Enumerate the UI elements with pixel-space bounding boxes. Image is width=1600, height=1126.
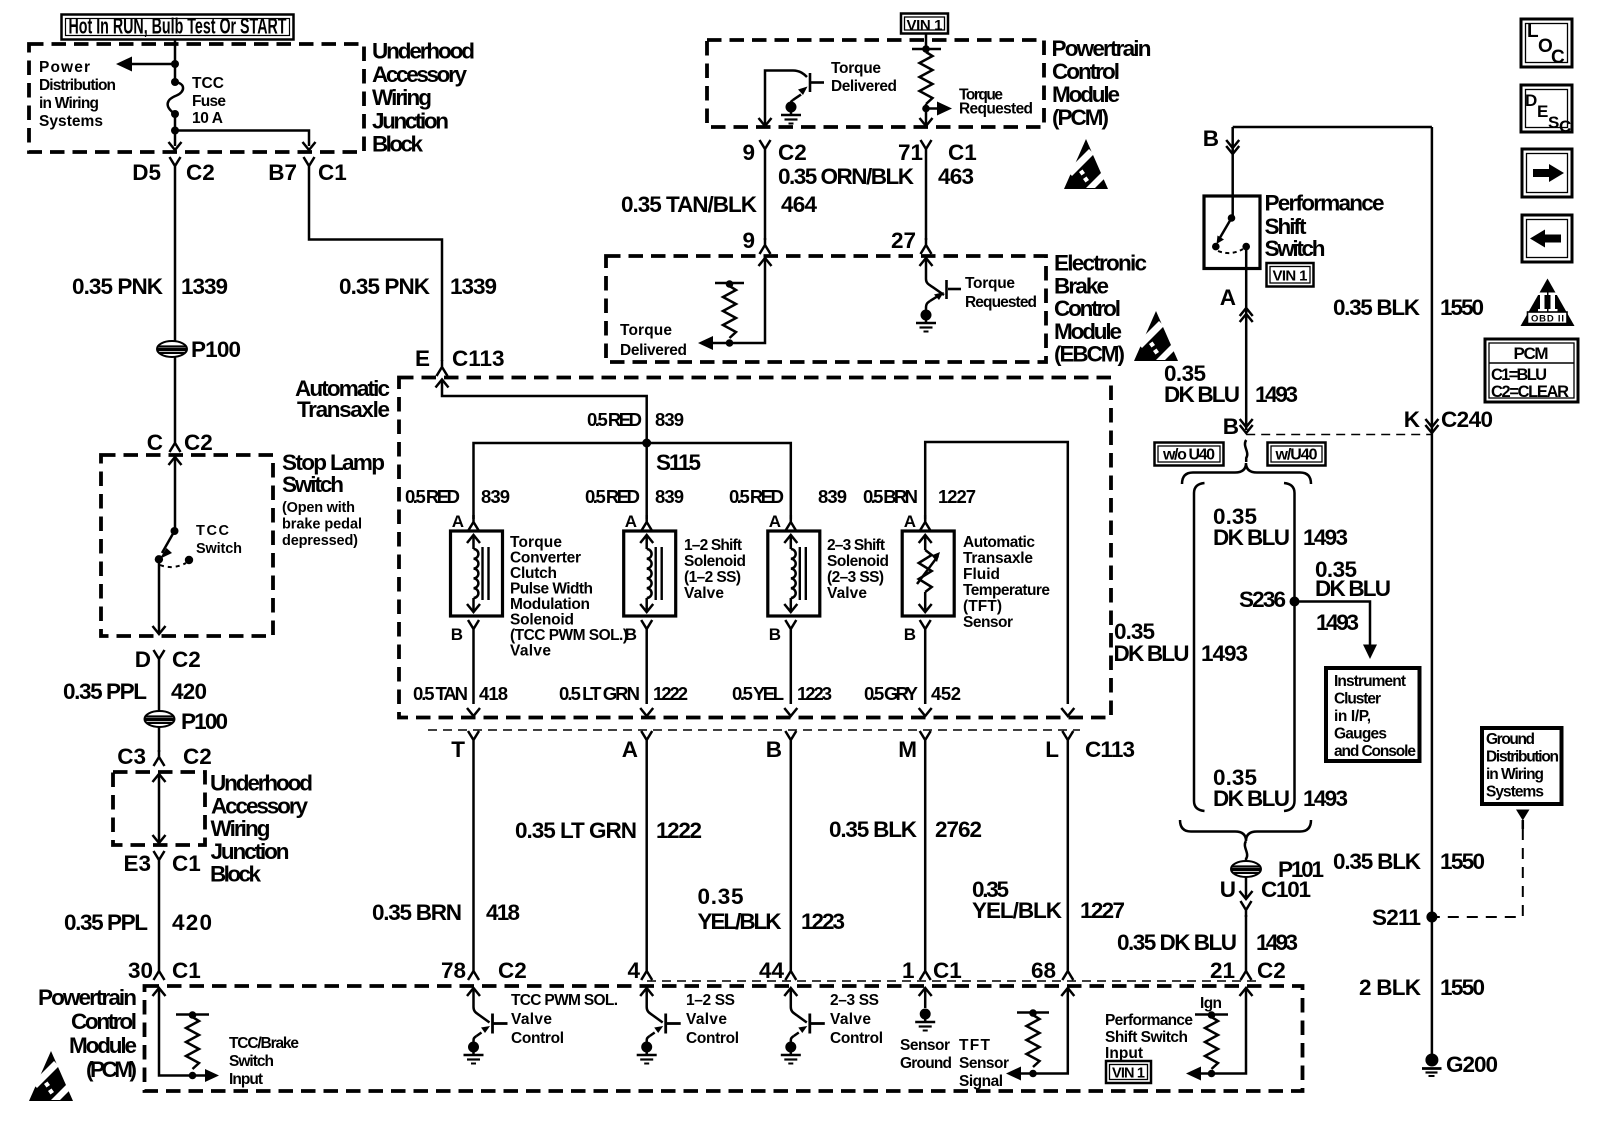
svg-text:Transaxle: Transaxle <box>297 397 390 422</box>
pin B forks below solenoids <box>451 620 479 644</box>
PCM (bottom) dashed box <box>145 986 1303 1091</box>
svg-text:839: 839 <box>818 486 847 507</box>
svg-text:Input: Input <box>229 1071 263 1088</box>
wire from Hot feed down <box>174 40 177 83</box>
label box VIN 1 (switch) <box>1267 263 1314 287</box>
svg-text:(PCM): (PCM) <box>86 1057 137 1082</box>
svg-text:TCC: TCC <box>196 523 230 539</box>
svg-text:1493: 1493 <box>1256 930 1298 955</box>
ESD symbol (EBCM) <box>1134 311 1178 361</box>
svg-text:C101: C101 <box>1261 877 1311 902</box>
branch bracket w/U40 wire <box>1284 483 1295 811</box>
pin 44 <box>759 958 796 983</box>
svg-text:Modulation: Modulation <box>510 596 590 613</box>
wire down to stop lamp switch <box>174 357 177 436</box>
svg-text:(TCC PWM SOL.): (TCC PWM SOL.) <box>510 627 628 644</box>
svg-text:C2: C2 <box>778 140 807 165</box>
svg-text:in Wiring: in Wiring <box>39 95 99 112</box>
svg-text:0.35 DK BLU: 0.35 DK BLU <box>1117 930 1237 955</box>
TFT feed wire 0.5 BRN 1227 <box>925 442 1068 704</box>
svg-text:839: 839 <box>481 486 510 507</box>
svg-text:S: S <box>1548 113 1559 132</box>
label: Stop Lamp Switch <box>282 450 385 549</box>
svg-text:1222: 1222 <box>656 818 702 843</box>
svg-text:1223: 1223 <box>797 683 832 704</box>
wire to box bottom <box>158 559 161 632</box>
svg-text:Instrument: Instrument <box>1334 673 1406 690</box>
svg-text:0.5 TAN: 0.5 TAN <box>413 683 468 704</box>
pin C C2 <box>147 430 213 455</box>
svg-text:A: A <box>452 512 464 531</box>
svg-text:Switch: Switch <box>282 472 344 497</box>
svg-text:TCC/Brake: TCC/Brake <box>229 1035 299 1052</box>
svg-text:Valve: Valve <box>686 1011 727 1028</box>
solenoid TCC PWM SOL valve <box>451 531 503 616</box>
receiver resistor Torque Delivered (EBCM) <box>620 258 772 359</box>
svg-text:B7: B7 <box>268 160 297 185</box>
svg-text:A: A <box>1220 285 1236 310</box>
branch bracket w/o U40 wire <box>1194 483 1205 811</box>
connector C113 dashed line <box>428 729 1080 731</box>
svg-text:1339: 1339 <box>450 274 497 299</box>
svg-text:VIN 1: VIN 1 <box>1112 1066 1145 1082</box>
svg-text:463: 463 <box>938 164 974 189</box>
svg-text:1550: 1550 <box>1440 295 1484 320</box>
driver 2-3 SS valve control <box>781 988 883 1064</box>
pin 1 C1 <box>902 958 962 983</box>
svg-text:Module: Module <box>1052 82 1120 107</box>
C113 pin forks and letters <box>451 731 479 762</box>
svg-text:w/o U40: w/o U40 <box>1162 447 1215 464</box>
solenoid 1-2 SS valve <box>624 531 676 616</box>
svg-text:Transaxle: Transaxle <box>963 550 1033 567</box>
svg-text:Valve: Valve <box>510 643 551 660</box>
svg-text:Block: Block <box>210 862 261 887</box>
svg-text:418: 418 <box>479 683 508 704</box>
wire: branch over to B7 <box>175 131 309 147</box>
svg-text:Accessory: Accessory <box>211 793 308 818</box>
label: Torque Converter Clutch Pulse Width Modulation Solenoid (TCC PWM SOL.) Valve <box>510 534 628 660</box>
svg-text:E: E <box>1537 102 1548 121</box>
wire 0.35 DK BLU 1493 to pin 21 <box>1245 915 1248 964</box>
svg-text:Solenoid: Solenoid <box>684 553 746 570</box>
label box: Hot In RUN, Bulb Test Or START <box>62 14 294 40</box>
svg-text:YEL/BLK: YEL/BLK <box>972 898 1063 923</box>
svg-text:C1: C1 <box>948 140 977 165</box>
performance shift switch box <box>1204 196 1260 269</box>
svg-text:Requested: Requested <box>965 294 1037 311</box>
pin B7 C1 <box>268 157 347 185</box>
icon arrow right <box>1522 149 1572 197</box>
svg-text:YEL/BLK: YEL/BLK <box>698 909 783 934</box>
svg-text:452: 452 <box>931 683 961 704</box>
svg-text:10 A: 10 A <box>192 110 223 127</box>
stop lamp switch dashed box <box>101 455 273 636</box>
svg-text:Torque: Torque <box>965 275 1015 292</box>
pin E C113 <box>415 346 505 376</box>
svg-text:VIN 1: VIN 1 <box>1273 268 1308 285</box>
svg-text:0.5 RED: 0.5 RED <box>587 409 642 430</box>
svg-text:Shift Switch: Shift Switch <box>1105 1029 1188 1046</box>
svg-text:78: 78 <box>441 958 466 983</box>
TCC/Brake switch input <box>153 988 300 1088</box>
svg-text:2–3 SS: 2–3 SS <box>830 992 879 1009</box>
svg-text:B: B <box>904 625 916 644</box>
TFT sensor (variable resistor) <box>902 531 954 616</box>
pin C3 C2 <box>117 744 212 769</box>
wire 0.35 PNK 1339 (right) <box>309 173 442 361</box>
pin A + fork (sol2) <box>625 512 652 531</box>
svg-text:2762: 2762 <box>935 817 982 842</box>
svg-text:Control: Control <box>71 1009 137 1034</box>
label: Automatic Transaxle Fluid Temperature (TFT) Sensor <box>963 534 1050 631</box>
pin E3 C1 <box>123 851 200 876</box>
svg-text:Torque: Torque <box>831 60 881 77</box>
label: Automatic Transaxle <box>295 376 390 422</box>
driver Torque Delivered (PCM top) <box>765 60 897 126</box>
connector P100 (upper) <box>157 341 187 357</box>
pin 71 C1 <box>898 140 977 165</box>
svg-text:(PCM): (PCM) <box>1052 105 1109 130</box>
wire 0.35 BLK 1550 (right) <box>1431 127 1434 1056</box>
wire VIN1 into PCM, resistor Torque Requested source <box>925 34 928 50</box>
TFT sensor signal input <box>959 988 1074 1090</box>
svg-text:Solenoid: Solenoid <box>510 612 574 629</box>
svg-text:and Console: and Console <box>1334 743 1416 760</box>
svg-text:C3: C3 <box>117 744 146 769</box>
svg-text:Ground: Ground <box>900 1055 952 1072</box>
svg-text:1493: 1493 <box>1316 610 1359 635</box>
svg-text:Torque: Torque <box>510 534 562 551</box>
solenoid 2-3 SS valve <box>768 531 820 616</box>
svg-text:Powertrain: Powertrain <box>1052 36 1152 61</box>
svg-text:71: 71 <box>898 140 923 165</box>
svg-text:1223: 1223 <box>801 909 845 934</box>
svg-text:C240: C240 <box>1441 407 1493 432</box>
svg-text:9: 9 <box>742 228 755 253</box>
pin 9 C2 <box>742 140 806 165</box>
svg-text:B: B <box>1203 126 1219 151</box>
junction node to B7 branch <box>171 127 179 135</box>
svg-text:DK BLU: DK BLU <box>1164 382 1240 407</box>
svg-text:D: D <box>1525 91 1537 110</box>
svg-text:0.5 RED: 0.5 RED <box>729 486 784 507</box>
fuse TCC Fuse 10 A <box>168 75 227 127</box>
svg-text:464: 464 <box>781 192 817 217</box>
svg-text:0.35 BLK: 0.35 BLK <box>829 817 918 842</box>
pin 68 <box>1031 958 1073 983</box>
svg-text:Control: Control <box>1052 59 1120 84</box>
svg-text:418: 418 <box>486 900 520 925</box>
wire: branch to power distribution (left arrow) <box>116 57 179 72</box>
svg-text:0.35 BLK: 0.35 BLK <box>1333 295 1421 320</box>
svg-text:in I/P,: in I/P, <box>1334 708 1371 725</box>
svg-text:0.5 YEL: 0.5 YEL <box>732 683 784 704</box>
pin 30 C1 <box>128 958 201 983</box>
svg-text:0.35 PPL: 0.35 PPL <box>63 679 147 704</box>
svg-text:Performance: Performance <box>1265 191 1385 216</box>
connector C240 dashed line <box>1246 434 1432 436</box>
wire B feed to performance shift switch <box>1233 126 1432 129</box>
wire 0.35 LT GRN 1222 <box>645 747 648 964</box>
splice S211 <box>1426 912 1437 923</box>
ground G200 <box>1422 1052 1498 1077</box>
svg-text:1222: 1222 <box>653 683 688 704</box>
svg-text:0.35 LT GRN: 0.35 LT GRN <box>515 818 637 843</box>
label: Powertrain Control Module (PCM) <box>1052 36 1152 130</box>
svg-text:TCC PWM SOL.: TCC PWM SOL. <box>511 992 618 1009</box>
svg-text:Switch: Switch <box>1265 236 1326 261</box>
label: 2-3 Shift Solenoid (2-3 SS) Valve <box>827 537 889 602</box>
svg-text:1550: 1550 <box>1440 849 1485 874</box>
svg-text:0.35 PNK: 0.35 PNK <box>72 274 164 299</box>
wire 0.35 YEL/BLK 1223 <box>790 747 793 964</box>
Underhood Accessory Wiring Junction Block (fuse block) dashed box <box>29 44 364 152</box>
svg-text:2 BLK: 2 BLK <box>1359 975 1422 1000</box>
svg-text:Sensor: Sensor <box>900 1037 950 1054</box>
svg-text:L: L <box>1045 737 1059 762</box>
svg-text:Underhood: Underhood <box>372 39 475 64</box>
svg-text:839: 839 <box>655 486 684 507</box>
icon arrow left <box>1522 215 1572 262</box>
wire below fuse <box>174 114 177 146</box>
svg-text:0.35 BLK: 0.35 BLK <box>1333 849 1422 874</box>
svg-text:S211: S211 <box>1372 905 1421 930</box>
svg-text:B: B <box>766 737 782 762</box>
svg-text:Temperature: Temperature <box>963 582 1050 599</box>
svg-text:1493: 1493 <box>1201 641 1248 666</box>
merge brace <box>1180 820 1311 841</box>
svg-text:T: T <box>451 737 465 762</box>
svg-text:(2–3 SS): (2–3 SS) <box>827 569 884 586</box>
svg-text:27: 27 <box>891 228 916 253</box>
svg-text:1493: 1493 <box>1255 382 1298 407</box>
wire 0.35 YEL/BLK 1227 <box>1067 747 1070 964</box>
pin D5 C2 <box>132 157 215 185</box>
connector P101 <box>1231 861 1261 877</box>
label: Underhood Accessory Wiring Junction Block (lower) <box>210 771 313 887</box>
svg-text:Block: Block <box>372 132 423 157</box>
label box VIN 1 (top) <box>901 14 948 35</box>
label box VIN 1 (bottom) <box>1106 1061 1151 1083</box>
wire 0.35 TAN/BLK 464 <box>764 156 767 240</box>
svg-text:21: 21 <box>1210 958 1235 983</box>
svg-text:w/U40: w/U40 <box>1275 447 1318 464</box>
svg-text:1–2 Shift: 1–2 Shift <box>684 537 742 554</box>
svg-text:Distribution: Distribution <box>1486 749 1559 766</box>
svg-text:0.35 PNK: 0.35 PNK <box>339 274 431 299</box>
wire A from switch <box>1245 269 1248 431</box>
pin A + fork (sol1) <box>452 512 479 531</box>
wire 0.35 BRN 418 <box>472 747 475 964</box>
svg-text:C2: C2 <box>184 430 213 455</box>
svg-text:0.35 TAN/BLK: 0.35 TAN/BLK <box>621 192 758 217</box>
svg-text:(EBCM): (EBCM) <box>1054 342 1125 367</box>
wire 0.35 ORN/BLK 463 <box>925 156 928 240</box>
svg-text:1227: 1227 <box>1080 898 1125 923</box>
label box w/U40 <box>1268 443 1326 466</box>
svg-text:Performance: Performance <box>1105 1012 1193 1029</box>
svg-text:Control: Control <box>830 1030 883 1047</box>
svg-text:4: 4 <box>627 958 640 983</box>
svg-text:Delivered: Delivered <box>831 78 897 95</box>
wire through small box <box>153 774 166 843</box>
svg-text:DK BLU: DK BLU <box>1114 641 1190 666</box>
label: 1-2 Shift Solenoid (1-2 SS) Valve <box>684 537 746 602</box>
svg-text:A: A <box>625 512 637 531</box>
svg-text:C1: C1 <box>318 160 347 185</box>
svg-text:Wiring: Wiring <box>211 816 271 841</box>
svg-text:Brake: Brake <box>1054 273 1109 298</box>
svg-text:Systems: Systems <box>1486 784 1544 801</box>
icon OBD II triangle <box>1521 279 1575 327</box>
svg-text:Input: Input <box>1105 1045 1143 1062</box>
svg-text:PCM: PCM <box>1514 344 1549 363</box>
svg-text:E3: E3 <box>123 851 151 876</box>
svg-text:9: 9 <box>742 140 755 165</box>
svg-text:B: B <box>451 625 463 644</box>
svg-text:1493: 1493 <box>1303 525 1348 550</box>
underhood junction block (small) dashed box <box>113 772 205 845</box>
svg-text:U: U <box>1220 877 1236 902</box>
svg-text:Valve: Valve <box>827 585 867 602</box>
svg-text:C113: C113 <box>1085 737 1135 762</box>
connector arrows at fuse block bottom <box>169 142 182 150</box>
label: Performance Shift Switch <box>1265 191 1385 262</box>
svg-text:1: 1 <box>902 958 915 983</box>
svg-text:C1: C1 <box>172 851 201 876</box>
svg-text:0.5 GRY: 0.5 GRY <box>864 683 919 704</box>
svg-text:D: D <box>135 647 151 672</box>
svg-text:Accessory: Accessory <box>372 62 467 87</box>
pin 9 (EBCM) <box>742 228 770 254</box>
wire 0.35 PPL 420 (lower) <box>158 867 161 964</box>
svg-text:C2: C2 <box>498 958 527 983</box>
svg-text:2–3 Shift: 2–3 Shift <box>827 537 885 554</box>
svg-text:B: B <box>1223 414 1239 439</box>
label: Power Distribution in Wiring Systems <box>39 59 116 130</box>
svg-text:C1: C1 <box>933 958 962 983</box>
connector P100 (lower) <box>145 711 175 727</box>
svg-text:C1=BLU: C1=BLU <box>1491 366 1547 384</box>
wires from B pins to bottom border <box>472 636 475 704</box>
svg-text:Control: Control <box>1054 296 1121 321</box>
bus wire to solenoids <box>474 443 791 519</box>
svg-text:44: 44 <box>759 958 785 983</box>
pin A + fork (sol3) <box>769 512 797 531</box>
svg-text:D5: D5 <box>132 160 161 185</box>
svg-text:Converter: Converter <box>510 550 581 567</box>
driver 1-2 SS valve control <box>637 988 739 1064</box>
svg-text:in Wiring: in Wiring <box>1486 766 1544 783</box>
svg-text:A: A <box>904 512 916 531</box>
dashed wire to S211 <box>1522 820 1525 829</box>
merge symbol <box>1245 841 1247 861</box>
svg-text:Junction: Junction <box>372 109 449 134</box>
pin U C101 <box>1245 877 1248 897</box>
svg-text:Valve: Valve <box>830 1011 871 1028</box>
label: Powertrain Control Module (PCM) <box>38 985 137 1082</box>
svg-text:Junction: Junction <box>211 839 290 864</box>
svg-text:Ign: Ign <box>1200 995 1222 1012</box>
wire down <box>158 727 161 752</box>
svg-text:P100: P100 <box>181 709 228 734</box>
svg-text:1–2 SS: 1–2 SS <box>686 992 735 1009</box>
label box: Instrument Cluster in I/P, Gauges and Console <box>1326 668 1420 761</box>
svg-text:Fluid: Fluid <box>963 566 1000 583</box>
svg-text:A: A <box>622 737 638 762</box>
svg-text:C: C <box>1551 47 1565 68</box>
wire S236 to instrument cluster <box>1295 602 1371 646</box>
svg-text:C2: C2 <box>186 160 215 185</box>
svg-text:G200: G200 <box>1446 1052 1498 1077</box>
svg-text:(1–2 SS): (1–2 SS) <box>684 569 741 586</box>
Automatic Transaxle dashed box <box>399 378 1111 718</box>
EBCM dashed box <box>606 256 1046 362</box>
svg-text:VIN 1: VIN 1 <box>907 17 943 34</box>
svg-text:1493: 1493 <box>1303 786 1348 811</box>
svg-text:Powertrain: Powertrain <box>38 985 137 1010</box>
svg-text:brake pedal: brake pedal <box>282 517 362 533</box>
svg-text:C2: C2 <box>172 647 201 672</box>
svg-text:S236: S236 <box>1239 587 1286 612</box>
svg-text:Torque: Torque <box>620 322 672 339</box>
pin 21 C2 <box>1210 958 1286 983</box>
switch TCC Switch <box>155 457 242 567</box>
svg-text:Distribution: Distribution <box>39 77 116 94</box>
svg-text:Fuse: Fuse <box>192 93 226 110</box>
ESD symbol (PCM bottom) <box>29 1051 73 1101</box>
splice S236 <box>1290 597 1300 607</box>
svg-text:Sensor: Sensor <box>959 1055 1009 1072</box>
svg-text:0.5 BRN: 0.5 BRN <box>863 486 918 507</box>
svg-text:0.35 PPL: 0.35 PPL <box>64 910 148 935</box>
svg-text:Power: Power <box>39 59 90 76</box>
wire 0.35 BLK 2762 <box>924 747 927 964</box>
ESD symbol (PCM top) <box>1064 139 1108 189</box>
svg-text:Solenoid: Solenoid <box>827 553 889 570</box>
svg-text:C1: C1 <box>172 958 201 983</box>
svg-text:B: B <box>769 625 781 644</box>
svg-text:Module: Module <box>69 1033 137 1058</box>
splice S115 <box>642 439 651 448</box>
svg-text:C113: C113 <box>452 346 505 371</box>
icon DESC <box>1521 85 1572 136</box>
svg-text:Underhood: Underhood <box>210 771 313 796</box>
svg-text:A: A <box>769 512 781 531</box>
svg-text:Hot In RUN, Bulb Test Or START: Hot In RUN, Bulb Test Or START <box>69 14 287 39</box>
svg-text:E: E <box>415 346 430 371</box>
svg-text:Sensor: Sensor <box>963 614 1013 631</box>
svg-text:68: 68 <box>1031 958 1056 983</box>
PCM (top) dashed box <box>707 40 1044 127</box>
svg-text:0.35 BRN: 0.35 BRN <box>372 900 462 925</box>
pin D C2 <box>135 647 201 672</box>
svg-text:0.5 RED: 0.5 RED <box>585 486 640 507</box>
svg-text:0.5 RED: 0.5 RED <box>405 486 460 507</box>
svg-text:839: 839 <box>655 409 684 430</box>
icon LOC <box>1521 19 1572 68</box>
svg-text:depressed): depressed) <box>282 533 358 549</box>
label: Electronic Brake Control Module (EBCM) <box>1054 251 1147 367</box>
svg-text:TCC: TCC <box>192 75 224 92</box>
svg-text:C: C <box>147 430 163 455</box>
svg-text:B: B <box>625 625 637 644</box>
svg-text:(TFT): (TFT) <box>963 598 1002 615</box>
driver TCC PWM SOL valve control <box>464 988 619 1064</box>
svg-text:Ground: Ground <box>1486 731 1535 748</box>
svg-text:Valve: Valve <box>511 1011 552 1028</box>
